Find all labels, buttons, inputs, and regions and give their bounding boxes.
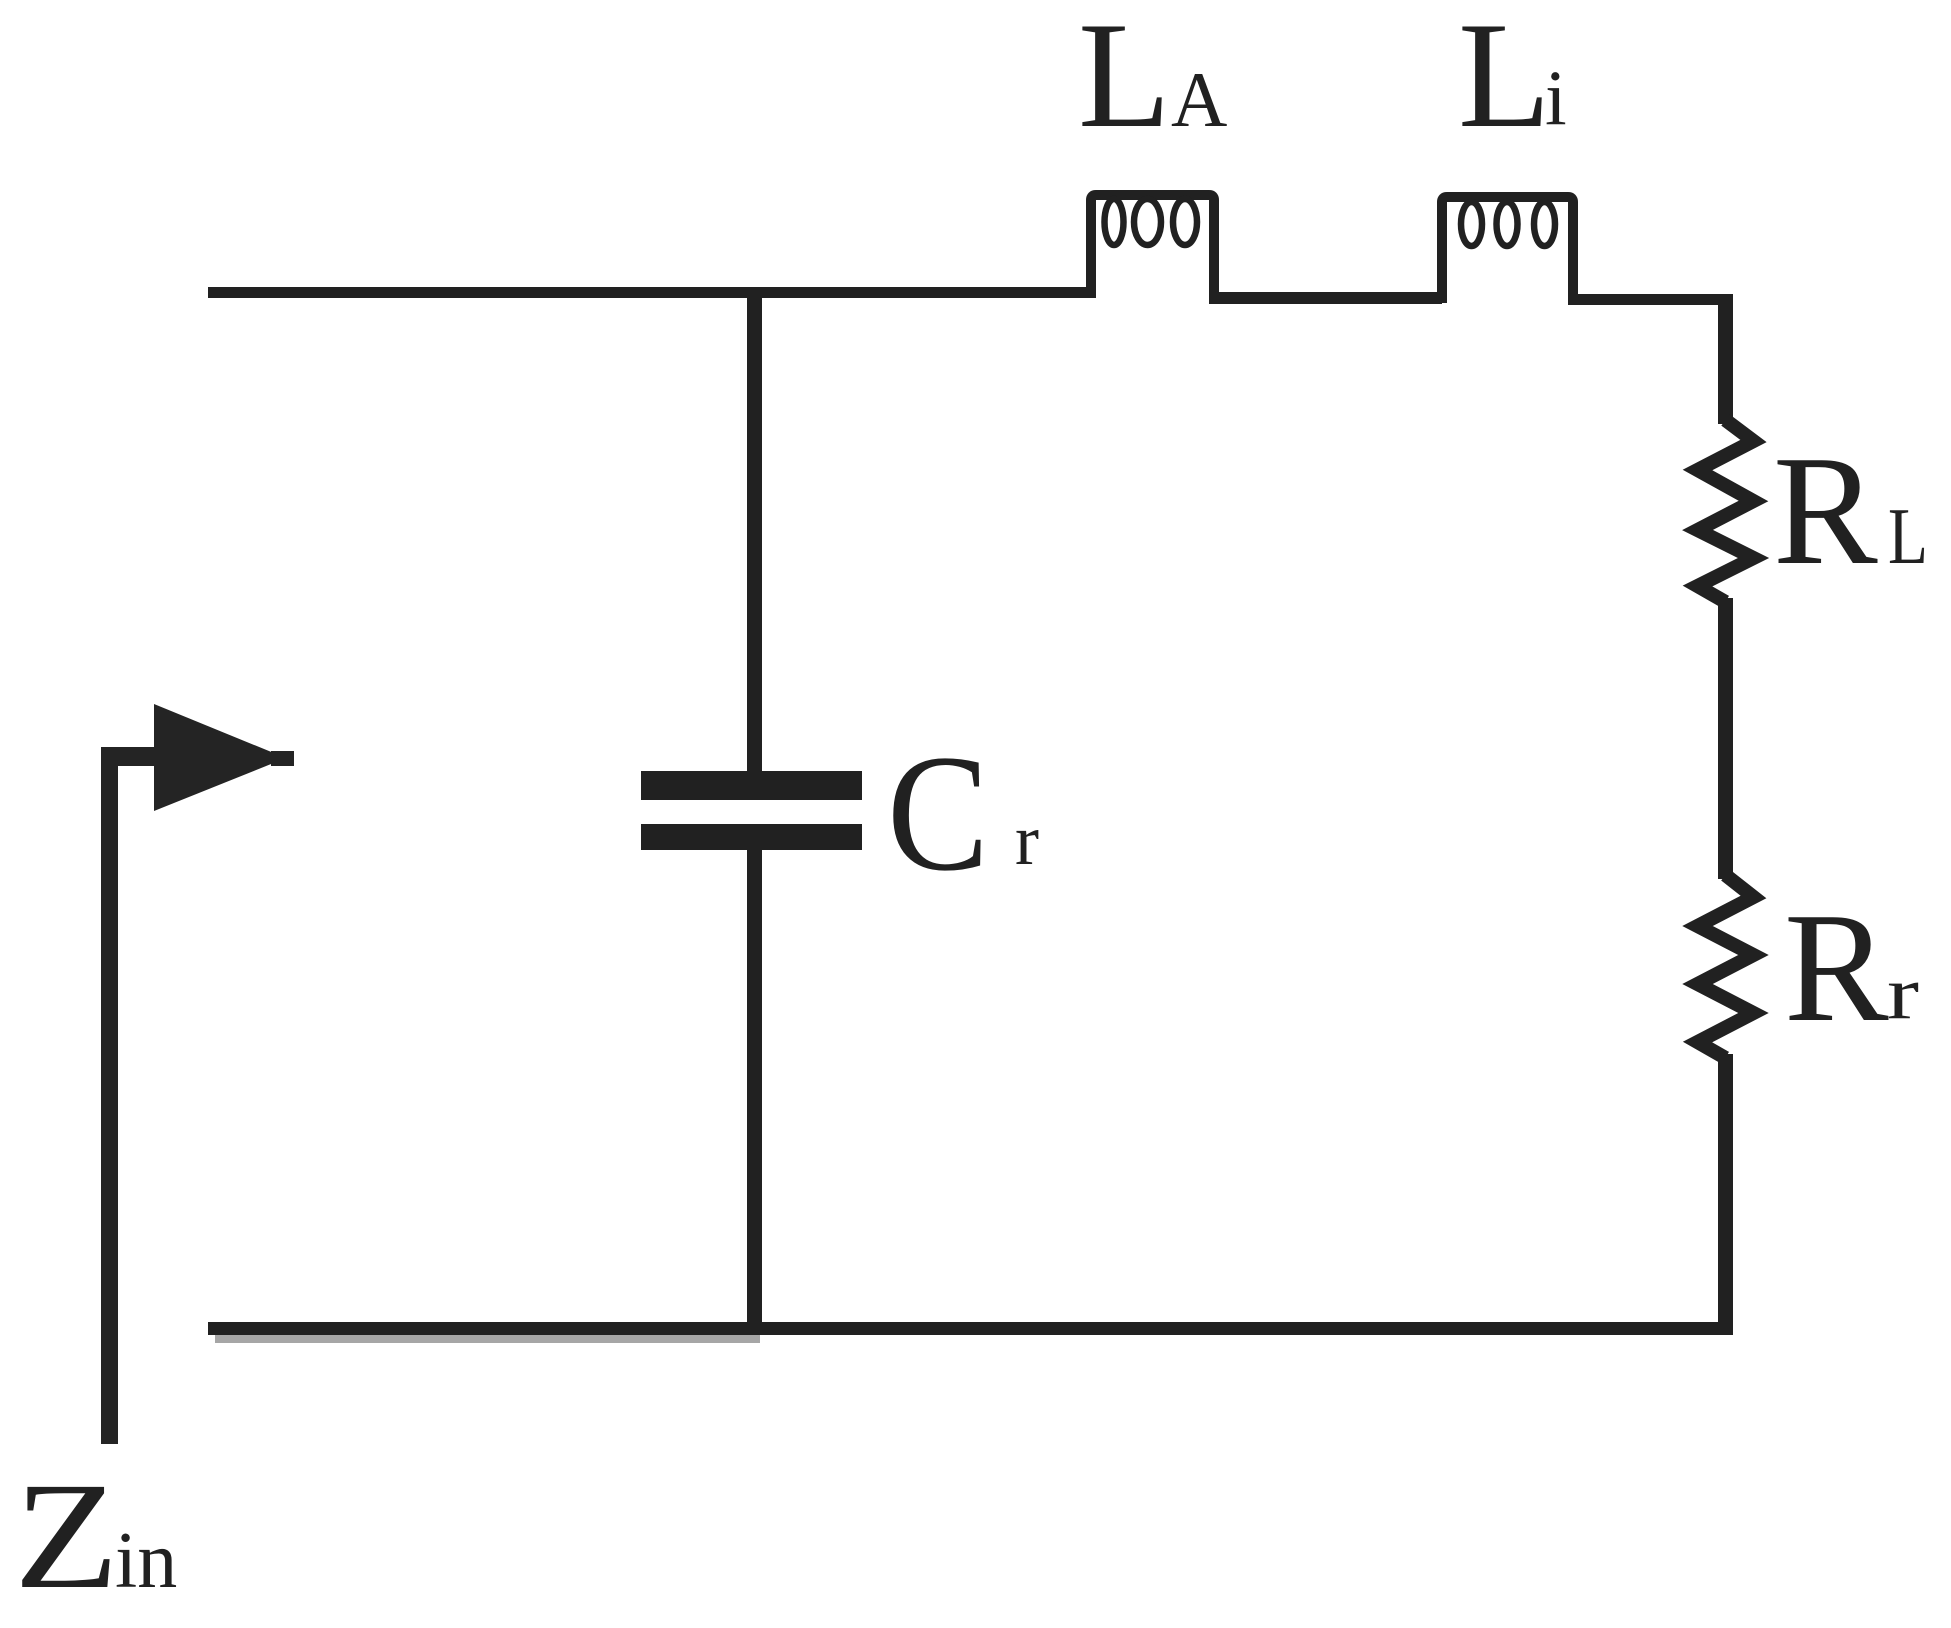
gray shadow under bottom wire <box>215 1335 760 1343</box>
inductor LA <box>1091 195 1214 298</box>
svg-text:L: L <box>1078 0 1171 159</box>
wire right vertical upper <box>1718 294 1733 424</box>
Zin probe arrowhead <box>154 704 286 811</box>
Zin probe arrow vertical line <box>101 747 118 1444</box>
node junction capacitor branch top <box>747 290 762 780</box>
svg-text:in: in <box>115 1517 177 1605</box>
Zin probe arrow stub <box>101 747 161 766</box>
svg-text:R: R <box>1784 880 1889 1054</box>
wire bottom horizontal <box>208 1322 1733 1335</box>
svg-text:r: r <box>1015 800 1039 880</box>
svg-text:i: i <box>1545 54 1567 141</box>
wire right vertical middle <box>1718 598 1733 879</box>
svg-text:Z: Z <box>14 1452 119 1621</box>
resistor RL <box>1698 420 1754 602</box>
svg-text:r: r <box>1887 952 1919 1035</box>
svg-text:C: C <box>887 721 989 906</box>
wire top-middle horizontal <box>1209 292 1442 304</box>
inductor Li <box>1442 197 1573 303</box>
wire right vertical lower <box>1718 1054 1733 1335</box>
capacitor Cr top plate <box>641 771 862 800</box>
capacitor Cr bottom plate <box>641 824 862 850</box>
svg-text:L: L <box>1458 0 1551 159</box>
wire top-right horizontal <box>1568 294 1733 305</box>
Zin probe arrowhead tip nub <box>271 751 294 766</box>
resistor Rr <box>1698 875 1754 1058</box>
wire capacitor stem lower <box>747 850 762 1335</box>
svg-text:A: A <box>1171 56 1227 143</box>
svg-text:L: L <box>1888 493 1928 581</box>
svg-text:R: R <box>1773 423 1878 597</box>
wire top-left horizontal <box>208 287 1091 298</box>
